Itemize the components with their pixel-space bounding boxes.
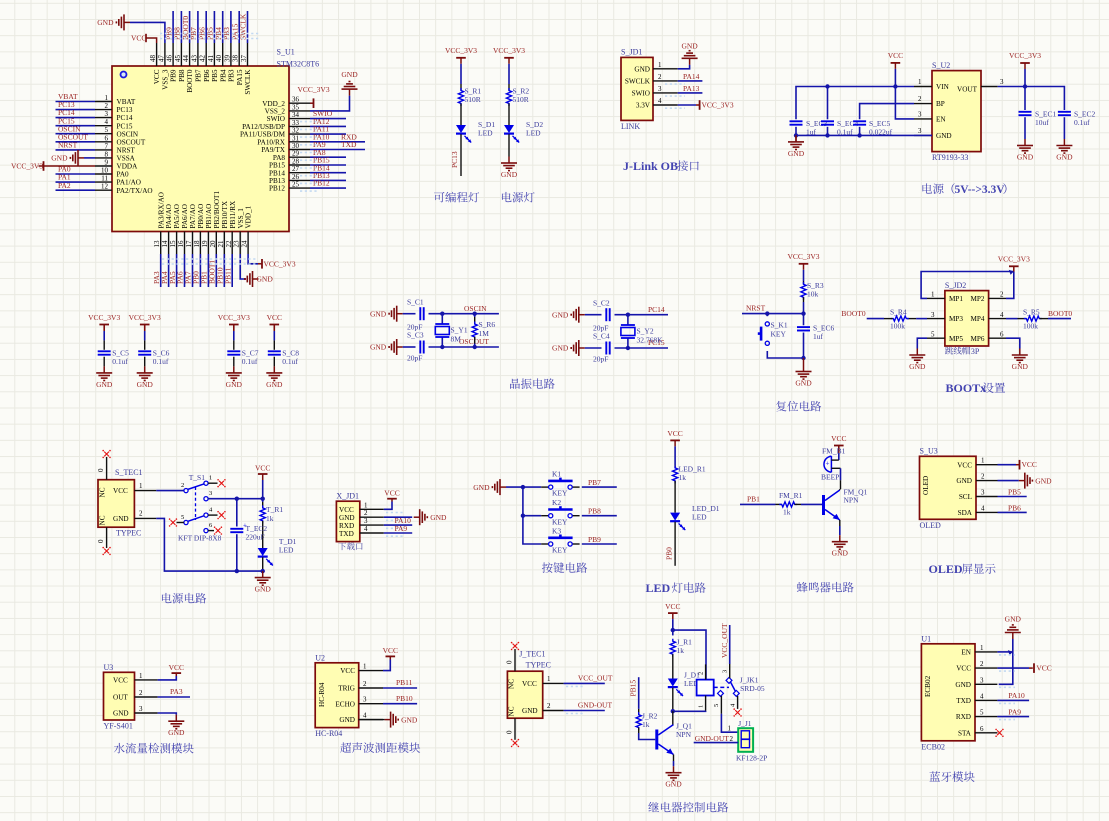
U1 pin 31 PA10/RX [289, 141, 310, 143]
svg-text:3: 3 [722, 670, 729, 673]
power VCC_3V3 above S_C6 [144, 325, 146, 331]
switch pin6 open [208, 530, 214, 532]
wire net PA9 [384, 532, 412, 534]
wire net PA3 [160, 254, 162, 287]
power VCC_3V3 above S_C7 [233, 325, 235, 331]
wire net PA9 [310, 149, 365, 151]
wire net PB13 [310, 179, 346, 181]
svg-text:PA8: PA8 [273, 154, 286, 162]
relay common contact pin 3 [726, 677, 732, 683]
caption 蓝牙模块 [929, 771, 940, 781]
svg-text:PA14: PA14 [683, 72, 700, 81]
svg-text:PB6: PB6 [203, 69, 211, 82]
key S_K1 KEY [766, 314, 768, 317]
svg-text:FM_B1: FM_B1 [822, 447, 846, 456]
ground below EC3 [795, 135, 797, 142]
S_JD1 pin 4 3.3V [653, 104, 678, 106]
ground below U1 [253, 278, 259, 280]
svg-text:1: 1 [980, 644, 984, 652]
svg-text:TXD: TXD [341, 140, 357, 149]
U1 pin 27 PB14 [289, 172, 310, 174]
svg-text:MP4: MP4 [971, 315, 985, 323]
U1 pin 46 PB9 [172, 43, 174, 66]
relay coil pin 1 [705, 696, 707, 711]
relay NO contact pin 4 [733, 690, 739, 696]
connector S_JD1 body [621, 57, 653, 120]
X_JD1 pin 3 RXD [360, 524, 384, 526]
wire T_EC2 to rail [236, 534, 238, 571]
ground below reset [803, 358, 805, 372]
ground below S_D2 [508, 157, 510, 164]
svg-text:GND: GND [113, 710, 129, 718]
svg-text:1: 1 [363, 663, 367, 671]
U1 pin 35 VSS_2 [289, 110, 310, 112]
power VCC above [175, 673, 177, 676]
wire VCC_3V3 to S_C6 [144, 325, 146, 332]
svg-text:GND: GND [832, 549, 849, 558]
svg-text:220uF: 220uF [246, 533, 265, 542]
svg-text:BOOTx: BOOTx [946, 381, 987, 395]
svg-text:HC-R04: HC-R04 [318, 682, 326, 707]
capacitor S_EC6 1uf [803, 314, 805, 326]
svg-text:VCC: VCC [131, 34, 146, 43]
svg-text:VCC_3V3: VCC_3V3 [264, 259, 296, 268]
wire EC1 to GND [1024, 117, 1026, 139]
svg-text:3: 3 [980, 676, 984, 684]
svg-text:3: 3 [1000, 78, 1004, 86]
svg-text:PB0: PB0 [665, 547, 674, 560]
label 下载口 [338, 543, 346, 551]
U1 pin 14 PA4/AO [168, 232, 170, 255]
svg-text:FM_R1: FM_R1 [779, 491, 803, 500]
ground at U1 pin 35 [349, 89, 351, 96]
S_U2 pin BP [914, 103, 932, 105]
svg-text:GND: GND [51, 154, 68, 163]
svg-text:OLED: OLED [929, 562, 963, 576]
wire net PB4 [222, 11, 224, 43]
U1 pin 23 VSS_1 [239, 232, 241, 255]
wire net PA9 [997, 716, 1029, 718]
svg-text:PA3/RX/AO: PA3/RX/AO [157, 192, 165, 228]
svg-text:VCC_OUT: VCC_OUT [578, 674, 613, 683]
svg-text:GND: GND [1056, 153, 1073, 162]
svg-text:2: 2 [1000, 291, 1004, 299]
svg-text:4: 4 [730, 703, 737, 707]
svg-text:5: 5 [713, 704, 720, 707]
svg-text:PB1: PB1 [747, 495, 760, 504]
svg-text:34: 34 [292, 111, 300, 119]
wire VCC_3V3 to R1 [460, 64, 462, 84]
svg-text:PA1/AO: PA1/AO [117, 179, 142, 187]
svg-text:VCC: VCC [956, 665, 971, 673]
svg-text:7: 7 [105, 142, 109, 150]
svg-text:GND: GND [522, 707, 538, 715]
ground below EC2 [1063, 139, 1065, 146]
svg-text:KF128-2P: KF128-2P [736, 754, 767, 763]
svg-text:16: 16 [177, 240, 185, 248]
wire BP to EC5 [860, 104, 914, 120]
wire X_JD1 pin2 to GND [384, 516, 412, 518]
svg-text:2: 2 [105, 102, 109, 110]
LED LED_D1 [670, 513, 680, 521]
wire NRST [742, 313, 804, 315]
wire S_D1 to PC13 [460, 134, 462, 176]
svg-text:PB12: PB12 [269, 185, 285, 193]
svg-text:GND: GND [1035, 476, 1052, 485]
relay coil pin 2 [705, 664, 707, 679]
wire net PA0 [56, 173, 96, 175]
wire FM_R1 to base [801, 503, 822, 505]
U1 pin 29 PA8 [289, 156, 310, 158]
svg-text:S_U1: S_U1 [277, 48, 295, 57]
S_U3 pin 1 VCC [976, 464, 998, 466]
svg-text:PA0: PA0 [117, 171, 130, 179]
selection dots JD1 [665, 83, 685, 85]
svg-text:S_JD2: S_JD2 [945, 281, 966, 290]
svg-text:VCC_3V3: VCC_3V3 [218, 313, 250, 322]
svg-text:4: 4 [980, 692, 984, 700]
svg-text:+: + [826, 459, 830, 467]
resistor S_R3 10k [801, 282, 806, 300]
power VCC_3V3 above R2 [508, 58, 510, 64]
svg-text:44: 44 [182, 55, 190, 63]
U1 pin 32 PA11/USB/DM [289, 133, 310, 135]
wire net PA3 [158, 696, 190, 698]
wire MP2 to VCC_3V3 [1006, 272, 1014, 299]
svg-text:0: 0 [97, 468, 105, 472]
svg-text:1k: 1k [677, 646, 685, 655]
svg-text:10k: 10k [807, 290, 819, 299]
svg-text:PA2: PA2 [58, 181, 71, 190]
wire MP5 to GND [917, 338, 927, 348]
wire VCC to S_C8 [273, 325, 275, 332]
svg-text:GND: GND [795, 379, 812, 388]
U3 pin 2 OUT [135, 696, 158, 698]
ground left of C1 [397, 313, 403, 315]
svg-text:4: 4 [981, 504, 985, 512]
svg-text:4: 4 [105, 118, 109, 126]
U1 pin 42 PB6 [205, 43, 207, 66]
crystal S_Y1 8M [441, 314, 443, 324]
svg-text:10uf: 10uf [1035, 118, 1049, 127]
MCU U1 STM32C8T6 body [112, 66, 289, 232]
svg-text:MP3: MP3 [949, 315, 963, 323]
switch pin5 open [177, 522, 184, 524]
svg-text:5: 5 [105, 126, 109, 134]
resistor S_R5 100k [1018, 318, 1027, 320]
svg-text:GND: GND [113, 515, 129, 523]
TEC1 top pin 0 [106, 457, 108, 480]
U1 pin 18 PB0/AO [199, 232, 201, 255]
power VCC right of pin1 [1016, 464, 1020, 466]
power VCC_3V3 at U1 pin 9 VDDA [43, 165, 95, 167]
LED S_D1 [456, 125, 466, 133]
key K2 KEY [541, 515, 548, 517]
power VCC_3V3 above R3 [803, 264, 805, 270]
U1 pin 10 PA0 [95, 173, 112, 175]
wire TEC1 VCC to switch [156, 490, 184, 492]
key bus vertical [523, 487, 541, 544]
svg-text:PA10: PA10 [1008, 691, 1025, 700]
svg-text:PB7: PB7 [588, 478, 601, 487]
wire MP6 to GND [1006, 338, 1020, 348]
capacitor S_C8 0.1uf [268, 350, 281, 352]
svg-text:S_U3: S_U3 [920, 447, 938, 456]
svg-text:PA5/AO: PA5/AO [173, 204, 181, 229]
svg-text:VCC: VCC [665, 602, 680, 611]
capacitor S_C2 20pF [605, 308, 607, 321]
svg-text:GND: GND [255, 585, 272, 594]
svg-text:MP2: MP2 [971, 295, 985, 303]
wire net PB11 [231, 254, 233, 287]
svg-text:LED: LED [692, 513, 707, 522]
wire net PB11 [383, 687, 417, 689]
svg-text:VCC: VCC [153, 69, 161, 84]
svg-text:41: 41 [207, 55, 215, 63]
S_JD2 pin 5 MP5 [927, 337, 945, 339]
svg-text:OSCIN: OSCIN [464, 304, 487, 313]
capacitor S_C6 0.1uf [138, 350, 151, 352]
ground below EC1 [1024, 139, 1026, 146]
wire EN to VCC [895, 87, 914, 119]
power VCC above T_R1 [262, 474, 264, 480]
U1 pin 13 PA3/RX/AO [160, 232, 162, 255]
svg-text:4: 4 [1000, 311, 1004, 319]
S_U2 pin VOUT [981, 86, 998, 88]
X_JD1 pin 1 VCC [360, 508, 384, 510]
U1 pin6 STA open [997, 730, 1002, 735]
U1 pin 3 PC14 [95, 117, 112, 119]
wire S_U3 pin1 to VCC [998, 464, 1017, 466]
svg-text:LED: LED [279, 546, 294, 555]
wire net PA7 [192, 254, 194, 287]
wire net PA11 [310, 133, 346, 135]
svg-text:PB11/RX: PB11/RX [229, 200, 237, 229]
relay NC contact pin 5 [718, 690, 724, 696]
svg-text:VCC: VCC [255, 464, 270, 473]
U1 pin 21 PB10/TX [223, 232, 225, 255]
svg-text:GND: GND [226, 380, 243, 389]
U2 pin 1 VCC [359, 670, 383, 672]
svg-text:VBAT: VBAT [117, 98, 136, 106]
wire PC14 row [615, 314, 669, 316]
module U1 body [921, 644, 975, 741]
svg-text:TYPEC: TYPEC [116, 529, 141, 538]
svg-text:4: 4 [364, 525, 368, 533]
svg-text:J-Link OB: J-Link OB [623, 159, 678, 173]
svg-text:PB9: PB9 [170, 69, 178, 82]
connector S_TEC1 body [98, 480, 134, 528]
U1 pin 24 VDD_1 [247, 232, 249, 255]
S_JD1 pin 3 SWIO [653, 92, 678, 94]
svg-text:GND: GND [168, 728, 185, 737]
transistor FM_Q1 NPN [822, 495, 825, 515]
svg-text:GND: GND [955, 681, 971, 689]
svg-text:17: 17 [185, 240, 193, 248]
U1 pin 1 VBAT [95, 101, 112, 103]
svg-text:GND: GND [665, 780, 682, 789]
svg-text:1uf: 1uf [813, 332, 824, 341]
power VCC_3V3 above VOUT rail [1024, 63, 1026, 69]
svg-text:14: 14 [161, 240, 169, 248]
U1 pin 7 NRST [95, 149, 112, 151]
wire K1 to PB7 [582, 486, 617, 488]
wire emitter to GND [673, 761, 675, 766]
U1 pin 43 PB7 [197, 43, 199, 66]
svg-text:20: 20 [209, 240, 217, 248]
svg-text:5: 5 [181, 514, 184, 521]
resistor LED_R1 1k [673, 465, 678, 483]
svg-text:8M: 8M [451, 335, 462, 344]
svg-text:TRIG: TRIG [338, 685, 355, 693]
svg-text:2: 2 [658, 73, 662, 81]
wire MP3 to R4 [916, 318, 927, 320]
svg-text:1: 1 [105, 94, 109, 102]
svg-text:GND: GND [257, 275, 274, 284]
svg-text:PB8: PB8 [588, 507, 601, 516]
svg-text:SRD-05: SRD-05 [740, 684, 765, 693]
svg-text:2: 2 [981, 473, 985, 481]
svg-text:HC-R04: HC-R04 [315, 729, 342, 738]
svg-text:OSCIN: OSCIN [117, 130, 139, 138]
svg-text:32.768K: 32.768K [637, 336, 664, 345]
U1 pin 6 OSCOUT [95, 141, 112, 143]
S_JD2 pin 2 MP2 [989, 297, 1006, 299]
wire EC4 top [827, 87, 829, 120]
wire net PA4 [168, 254, 170, 287]
svg-text:VDD_1: VDD_1 [245, 205, 253, 228]
svg-text:GND: GND [552, 310, 569, 319]
capacitor S_C7 0.1uf [227, 350, 240, 352]
U1 pin 12 PA2/TX/AO [95, 189, 112, 191]
svg-text:PB11: PB11 [396, 678, 413, 687]
wire U3 pin1 to VCC [158, 676, 177, 680]
power VCC_3V3 above S_C5 [103, 325, 105, 331]
caption 复位电路 [776, 401, 786, 412]
svg-text:45: 45 [174, 55, 182, 63]
U1 pin 19 PB1/AO [207, 232, 209, 255]
power VCC above U2 [894, 63, 896, 69]
svg-text:6: 6 [209, 522, 213, 529]
wire BOOT0 right [1048, 318, 1071, 320]
svg-text:SWCLK: SWCLK [625, 78, 651, 86]
svg-text:VCC: VCC [888, 51, 903, 60]
ground below [175, 715, 177, 722]
svg-text:1: 1 [918, 78, 922, 86]
svg-text:GND: GND [370, 309, 387, 318]
svg-text:15: 15 [169, 240, 177, 248]
svg-text:2: 2 [547, 702, 551, 710]
U2 pin 3 ECHO [359, 703, 383, 705]
svg-text:RXD: RXD [956, 713, 971, 721]
U1 pin 3 GND [975, 683, 997, 685]
resistor FM_R1 1k [776, 503, 782, 505]
svg-text:4: 4 [658, 97, 662, 105]
svg-text:43: 43 [190, 55, 198, 63]
wire EN to bus [997, 651, 1012, 653]
svg-text:1: 1 [547, 675, 551, 683]
svg-text:PB5: PB5 [211, 69, 219, 82]
wire net PB14 [310, 172, 346, 174]
wire GND to C2 [585, 314, 602, 316]
wire net PA10 [384, 524, 412, 526]
X_JD1 pin 4 TXD [360, 532, 384, 534]
svg-text:K3: K3 [552, 526, 561, 535]
svg-text:GND: GND [137, 380, 154, 389]
svg-text:3: 3 [363, 696, 367, 704]
U1 pin 15 PA5/AO [176, 232, 178, 255]
capacitor S_C5 0.1uf [98, 350, 111, 352]
svg-text:0.1uf: 0.1uf [282, 357, 298, 366]
svg-text:S_C3: S_C3 [407, 331, 424, 340]
caption 晶振电路 [510, 378, 520, 388]
wire EC2 to GND [1063, 117, 1065, 139]
wire net PB10 [223, 254, 225, 287]
wire PC15 row [615, 347, 669, 349]
crystal S_Y2 32.768K [627, 315, 629, 325]
svg-text:SWIO: SWIO [267, 115, 285, 123]
svg-text:10: 10 [101, 167, 109, 175]
svg-text:VCC_3V3: VCC_3V3 [11, 162, 43, 171]
svg-text:PB10/TX: PB10/TX [221, 200, 229, 228]
S_JD2 pin 6 MP6 [989, 337, 1006, 339]
wire net PB5 [998, 496, 1027, 498]
svg-text:GND: GND [681, 42, 698, 51]
svg-text:1: 1 [209, 475, 212, 482]
svg-text:0: 0 [97, 539, 105, 543]
svg-text:OUT: OUT [113, 694, 128, 702]
U1 pin 30 PA9/TX [289, 149, 310, 151]
svg-text:KEY: KEY [771, 330, 787, 339]
LED J_D1 [668, 679, 678, 687]
power VCC above relay [672, 613, 674, 619]
S_JD1 pin 2 SWCLK [653, 80, 678, 82]
svg-text:NC: NC [508, 679, 516, 689]
svg-text:3: 3 [105, 110, 109, 118]
U1 pin 2 VCC [975, 667, 997, 669]
svg-text:22: 22 [225, 240, 233, 248]
wire net VCC_OUT [564, 682, 605, 684]
caption 按键电路 [542, 562, 553, 573]
wire VCC_3V3 to S_C7 [233, 325, 235, 332]
svg-text:5V-->3.3V: 5V-->3.3V [955, 184, 1006, 196]
svg-text:BP: BP [936, 100, 945, 108]
svg-text:KEY: KEY [552, 546, 568, 555]
wire net PA8 [310, 156, 346, 158]
svg-text:U2: U2 [315, 653, 325, 662]
wire X_JD1 pin1 to VCC [384, 502, 392, 510]
svg-text:PB0/AO: PB0/AO [197, 204, 205, 229]
svg-text:T_S1: T_S1 [189, 473, 206, 482]
svg-text:VCC: VCC [113, 487, 128, 495]
svg-text:12: 12 [101, 183, 109, 191]
S_JD2 pin 4 MP4 [989, 318, 1006, 320]
resistor J_R1 1k [672, 630, 674, 635]
wire net PA2 [56, 189, 96, 191]
switch pin1 open [208, 482, 217, 484]
svg-text:PA9: PA9 [395, 524, 408, 533]
svg-text:VCC_3V3: VCC_3V3 [702, 101, 734, 110]
capacitor S_EC2 0.1uf [1058, 111, 1071, 113]
svg-text:13: 13 [153, 240, 161, 248]
transistor J_Q1 NPN [655, 730, 658, 750]
svg-text:VCC: VCC [339, 506, 354, 514]
svg-text:4: 4 [209, 507, 213, 514]
wire OSCOUT row [429, 346, 499, 348]
wire VCC pin [997, 667, 1029, 669]
resistor S_R1 510R [460, 84, 462, 91]
key K3 KEY [541, 543, 548, 545]
